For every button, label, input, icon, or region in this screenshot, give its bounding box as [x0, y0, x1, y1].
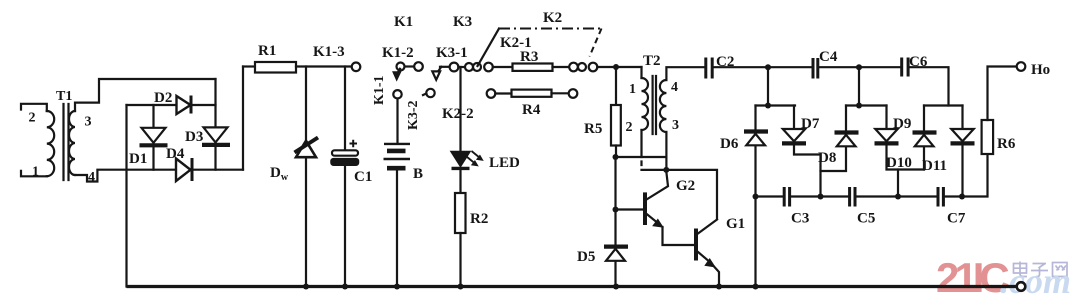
capacitor C7 [938, 187, 966, 227]
junction dot D5-ground [613, 284, 619, 290]
wire collector node [642, 170, 718, 219]
T2 pin2 lead [640, 130, 642, 165]
diode D6 [720, 106, 768, 287]
output terminal bottom [1017, 282, 1026, 291]
T1 core [64, 104, 69, 180]
switch K2-1 contacts left [465, 63, 493, 72]
T1 secondary winding [69, 111, 75, 175]
svg-text:D4: D4 [166, 146, 185, 162]
svg-text:D9: D9 [893, 116, 911, 132]
zener diode Dw [270, 138, 318, 184]
wire G2 emitter to G1 base [663, 227, 695, 245]
LED [451, 151, 520, 171]
svg-text:D10: D10 [886, 155, 912, 171]
wire K3-1 to K2-1 contacts [458, 66, 464, 68]
diode D11 [922, 106, 975, 197]
junction dot Dw-ground [303, 284, 309, 290]
terminal Ho [1017, 62, 1050, 78]
svg-text:K1-2: K1-2 [382, 45, 414, 61]
T2 pin3 lead [665, 132, 667, 170]
svg-text:D1: D1 [129, 151, 147, 167]
node ladder left to C3 row [753, 194, 759, 200]
svg-text:C3: C3 [791, 211, 809, 227]
svg-text:C5: C5 [857, 211, 875, 227]
resistor R1 [255, 43, 296, 73]
svg-text:R1: R1 [258, 43, 276, 59]
svg-text:R5: R5 [584, 121, 602, 137]
Y split 3 [924, 104, 963, 106]
wire T1 pin3 to bridge top rail [75, 79, 216, 111]
wire C2 to C4 [714, 66, 811, 68]
transistor G2 [616, 172, 696, 227]
svg-text:D7: D7 [801, 116, 820, 132]
svg-text:R4: R4 [522, 102, 541, 118]
junction dot ladder-ground [753, 284, 759, 290]
wire bridge output to R1 [243, 65, 255, 67]
svg-text:1: 1 [629, 82, 636, 97]
contact K2-2 row with resistor R4 [442, 89, 577, 122]
Y split 1 [756, 104, 796, 106]
transistor G1 [696, 216, 745, 267]
wire R5 to base node [615, 146, 617, 158]
transformer T2 [626, 53, 706, 170]
capacitor C1 branch wire [344, 67, 346, 287]
contact K3-2 [406, 89, 435, 130]
switch K2 linkage [478, 10, 602, 66]
T2 pin1 lead [640, 67, 642, 78]
wire R2 to ground rail [459, 233, 461, 287]
svg-text:D11: D11 [922, 158, 947, 174]
node Y1 feed [765, 103, 771, 109]
svg-text:LED: LED [489, 155, 520, 171]
wire bridge right vertical (DC output) [242, 67, 244, 170]
svg-text:K2-1: K2-1 [500, 35, 532, 51]
wire bridge left vertical to ground rail [125, 105, 127, 287]
node C5/C7 tap [895, 194, 901, 200]
resistor R3 [513, 49, 553, 71]
svg-text:G2: G2 [676, 178, 695, 194]
ground rail [127, 285, 1017, 288]
capacitor C1 [331, 140, 372, 185]
diode D1 [129, 105, 168, 170]
svg-text:4: 4 [88, 170, 95, 185]
diode D8 [818, 106, 859, 172]
capacitor C5 [850, 187, 876, 227]
T1 primary winding [47, 111, 54, 176]
node C3/C5 tap [818, 194, 824, 200]
svg-text:D6: D6 [720, 136, 739, 152]
svg-text:K3-2: K3-2 [406, 100, 421, 130]
svg-text:C7: C7 [947, 211, 966, 227]
wire C4 to C6 [820, 66, 901, 68]
wire contacts to R3 [493, 66, 513, 68]
svg-text:R6: R6 [997, 136, 1016, 152]
wire base node down [614, 157, 616, 210]
svg-text:C4: C4 [819, 49, 838, 65]
T2 primary winding [642, 78, 649, 130]
contact K3-1 circle [450, 63, 459, 72]
node collectors [663, 167, 669, 173]
svg-text:D8: D8 [818, 150, 836, 166]
watermark chinese char wang [1053, 263, 1068, 277]
terminal K1-3 [313, 44, 360, 71]
svg-text:K1: K1 [394, 14, 413, 30]
svg-text:2: 2 [29, 111, 36, 126]
Y split 2 [846, 104, 887, 106]
svg-text:G1: G1 [726, 216, 745, 232]
wire LED to R2 [459, 169, 461, 193]
T2 secondary winding [660, 80, 666, 132]
wire junction to R5 [615, 67, 617, 105]
T1 pin 1 lead [21, 171, 47, 177]
wire R1 to terminal K1-3 [296, 65, 352, 67]
wire G1 emitter to ground [714, 267, 719, 287]
node top rail tap2 [856, 64, 862, 70]
svg-text:21IC: 21IC [936, 254, 1009, 301]
diode D5 [577, 247, 628, 265]
svg-text:C1: C1 [354, 169, 372, 185]
svg-text:D3: D3 [185, 129, 203, 145]
svg-text:Ho: Ho [1031, 62, 1050, 78]
svg-text:D5: D5 [577, 249, 595, 265]
diode D7 [782, 106, 821, 197]
wire battery to ground rail [396, 171, 398, 287]
T1 pin 2 lead [21, 104, 47, 111]
wire C6 to ladder feed 3 [910, 67, 949, 105]
svg-text:K2: K2 [543, 10, 562, 26]
svg-text:T2: T2 [643, 53, 661, 69]
svg-text:1: 1 [32, 165, 39, 180]
svg-text:D2: D2 [154, 90, 172, 106]
watermark chinese char dian [1014, 262, 1028, 277]
diode D4 [166, 146, 192, 181]
svg-text:R3: R3 [520, 49, 538, 65]
wire right contacts to T2 node [597, 66, 641, 68]
capacitor C4 [813, 49, 838, 79]
svg-text:K1-1: K1-1 [372, 75, 387, 105]
svg-text:4: 4 [671, 80, 678, 95]
junction dot G1-ground [716, 284, 722, 290]
wire base node to T2 pins [616, 156, 667, 158]
resistor R2 [455, 193, 488, 233]
capacitor C3 [784, 187, 809, 227]
capacitor C6 [902, 54, 928, 77]
capacitor C2 [706, 54, 735, 79]
T2 core [653, 76, 656, 134]
svg-text:K3: K3 [453, 14, 472, 30]
wire bridge D2 row [127, 104, 216, 106]
svg-text:K1-3: K1-3 [313, 44, 345, 60]
node K2/T2/R5 junction [613, 64, 619, 70]
diode D9 [875, 106, 925, 170]
wire R6 to Ho terminal [988, 67, 1017, 121]
wire D9/D10 tap down [897, 170, 899, 197]
junction dot battery-ground [394, 284, 400, 290]
svg-text:2: 2 [626, 120, 633, 135]
svg-text:3: 3 [672, 118, 679, 133]
switch K2-1 contacts right [500, 35, 597, 71]
zener diode Dw branch wire [305, 67, 307, 287]
svg-text:R2: R2 [470, 211, 488, 227]
watermark chinese char zi [1031, 264, 1048, 277]
svg-text:K3-1: K3-1 [436, 45, 468, 61]
wire T1 pin4 to bridge bottom [75, 170, 243, 182]
resistor R5 [584, 105, 621, 146]
junction dot R2-ground [458, 284, 464, 290]
WATERMARK [936, 254, 1071, 301]
svg-text:3: 3 [85, 115, 92, 130]
node R5 bottom [613, 154, 619, 160]
svg-text:B: B [413, 166, 423, 182]
svg-text:T1: T1 [56, 89, 72, 104]
svg-text:.com: .com [1000, 261, 1071, 301]
svg-text:K2-2: K2-2 [442, 106, 474, 122]
wire K3 wiper to K3-1 [440, 66, 450, 68]
diode D2 [154, 90, 191, 114]
bottom capacitor row wire [756, 154, 988, 197]
wire ladder feed 1 [767, 67, 769, 105]
wire K1-1 to battery [396, 99, 398, 144]
node D11/C7 tap [959, 194, 965, 200]
wire R3 to right contacts [553, 66, 570, 68]
resistor R6 [982, 120, 1016, 154]
wire ladder feed 2 [858, 67, 860, 105]
junction dot C1-ground [342, 284, 348, 290]
diode D10 [886, 106, 937, 172]
node top rail tap1 [765, 64, 771, 70]
battery B [384, 144, 424, 182]
contact K1-1 [372, 75, 402, 105]
switch K1 wiper contact [382, 14, 423, 80]
wire node to D5 [614, 210, 616, 287]
transformer T1 [21, 89, 95, 185]
node Y2 feed [856, 103, 862, 109]
switch K3 wiper [432, 14, 472, 80]
diode D3 [185, 79, 230, 170]
LED branch wire [459, 67, 461, 152]
T2 pin4 lead [666, 67, 705, 80]
node G2 base tap [613, 207, 619, 213]
